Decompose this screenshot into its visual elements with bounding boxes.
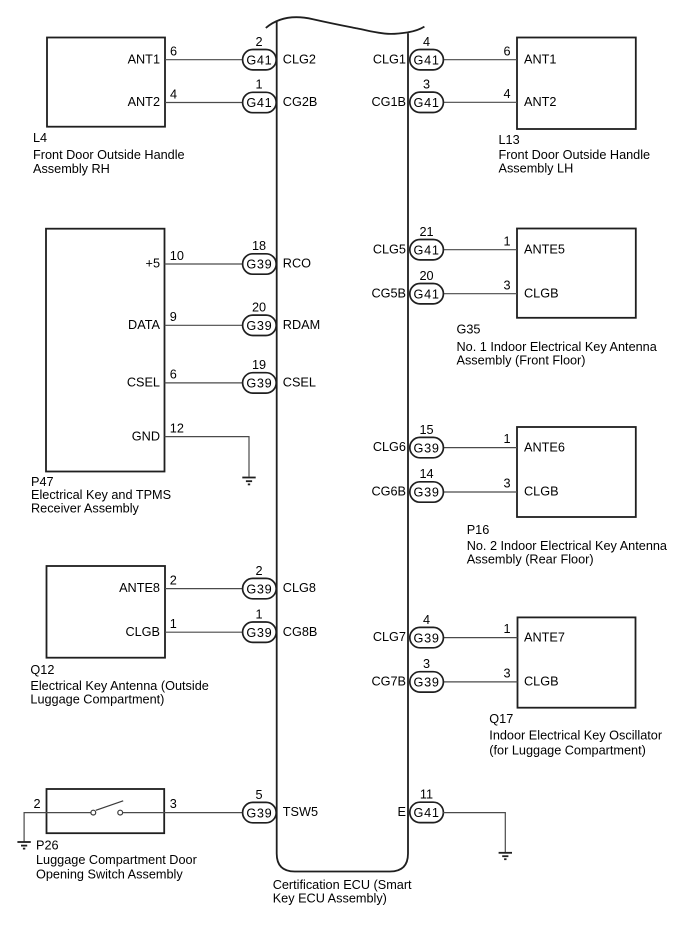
svg-text:GND: GND — [132, 429, 160, 443]
ground symbol (P26 pin 2) — [17, 842, 30, 849]
svg-text:Opening Switch Assembly: Opening Switch Assembly — [36, 868, 183, 882]
label L4 — [33, 131, 185, 176]
G35 pin CLGB (pin 3) — [503, 278, 558, 300]
svg-text:L4: L4 — [33, 131, 47, 145]
svg-text:P47: P47 — [31, 475, 54, 489]
connector oval G39 pin 15 CLG6 — [373, 423, 444, 458]
svg-text:ANTE5: ANTE5 — [524, 242, 565, 256]
wire P47.+5 to G39 RCO — [165, 263, 244, 265]
svg-text:G35: G35 — [457, 322, 481, 336]
svg-text:CSEL: CSEL — [127, 376, 160, 390]
P16 pin CLGB (pin 3) — [503, 477, 558, 499]
svg-text:CG6B: CG6B — [371, 485, 406, 499]
label Q12 — [30, 663, 208, 707]
wire P47.GND to ground — [165, 437, 250, 477]
svg-text:CG5B: CG5B — [371, 286, 406, 300]
wire ground to P26 left contact — [24, 813, 91, 842]
svg-text:TSW5: TSW5 — [283, 805, 318, 819]
svg-text:G41: G41 — [246, 53, 272, 67]
svg-text:15: 15 — [419, 423, 433, 437]
connector oval G39 pin 4 CLG7 — [373, 613, 444, 648]
svg-text:12: 12 — [170, 421, 184, 435]
L4 pin ANT1 (pin 6) — [128, 45, 178, 67]
label P26 — [36, 838, 198, 881]
L4 pin ANT2 (pin 4) — [128, 88, 178, 110]
svg-text:CLG5: CLG5 — [373, 242, 406, 256]
connector oval G41 pin 20 CG5B — [371, 269, 443, 304]
svg-text:4: 4 — [423, 613, 430, 627]
ECU body outline (Certification ECU / Smart Key ECU Assembly) — [266, 17, 425, 871]
svg-text:DATA: DATA — [128, 318, 160, 332]
wire P47.DATA to G39 RDAM — [165, 324, 244, 326]
svg-text:CLGB: CLGB — [524, 286, 559, 300]
svg-text:6: 6 — [503, 44, 510, 58]
label P16 — [467, 523, 668, 567]
svg-text:2: 2 — [255, 564, 262, 578]
svg-text:Q12: Q12 — [30, 663, 54, 677]
svg-text:Front Door Outside Handle: Front Door Outside Handle — [33, 148, 185, 162]
connector oval G39 pin 2 CLG8 — [243, 564, 316, 599]
svg-text:20: 20 — [252, 301, 266, 315]
svg-text:G39: G39 — [246, 319, 272, 333]
wire P47.CSEL to G39 CSEL — [165, 382, 244, 384]
svg-text:E: E — [398, 805, 406, 819]
svg-text:G39: G39 — [414, 486, 440, 500]
svg-text:18: 18 — [252, 239, 266, 253]
wire Q12.CLGB to G39 CG8B — [165, 631, 243, 633]
connector oval G39 pin 18 RCO — [243, 239, 312, 274]
wire G41 CLG5 to G35.ANTE5 — [443, 249, 517, 251]
svg-text:3: 3 — [503, 278, 510, 292]
box L13 Front Door Outside Handle Assembly LH — [517, 38, 636, 130]
wire G39 CG7B to Q17.CLGB — [443, 681, 518, 683]
svg-text:G39: G39 — [414, 441, 440, 455]
svg-text:P26: P26 — [36, 838, 59, 852]
svg-text:CLG8: CLG8 — [283, 581, 316, 595]
connector oval G41 pin 21 CLG5 — [373, 225, 444, 260]
svg-text:L13: L13 — [499, 133, 520, 147]
connector oval G41 pin 4 CLG1 — [373, 35, 444, 70]
svg-text:3: 3 — [423, 78, 430, 92]
svg-text:G39: G39 — [246, 258, 272, 272]
connector oval G39 pin 3 CG7B — [371, 657, 443, 692]
L13 pin ANT1 (pin 6) — [503, 44, 556, 66]
svg-text:G39: G39 — [246, 806, 272, 820]
wire G39 CLG7 to Q17.ANTE7 — [443, 637, 518, 639]
svg-text:Assembly (Rear Floor): Assembly (Rear Floor) — [467, 553, 594, 567]
svg-text:1: 1 — [255, 78, 262, 92]
svg-text:+5: +5 — [146, 257, 160, 271]
wire G41 CG1B to L13.ANT2 — [443, 101, 517, 103]
svg-text:Key ECU Assembly): Key ECU Assembly) — [273, 892, 387, 906]
svg-text:CLG6: CLG6 — [373, 440, 406, 454]
svg-text:4: 4 — [503, 87, 510, 101]
svg-text:Assembly (Front Floor): Assembly (Front Floor) — [457, 353, 586, 367]
svg-text:2: 2 — [33, 797, 40, 811]
svg-text:ANTE8: ANTE8 — [119, 581, 160, 595]
svg-text:1: 1 — [503, 234, 510, 248]
wire G39 CLG6 to P16.ANTE6 — [443, 447, 517, 449]
svg-text:CLG1: CLG1 — [373, 52, 406, 66]
svg-text:G41: G41 — [246, 96, 272, 110]
wire G41 CG5B to G35.CLGB — [443, 293, 517, 295]
box P26 Luggage Compartment Door Opening Switch Assembly — [47, 789, 165, 833]
svg-text:Certification ECU (Smart: Certification ECU (Smart — [273, 878, 412, 892]
svg-text:1: 1 — [170, 617, 177, 631]
G35 pin ANTE5 (pin 1) — [503, 234, 564, 256]
svg-text:1: 1 — [503, 622, 510, 636]
P47 pin +5 (pin 10) — [146, 249, 184, 271]
svg-text:CG8B: CG8B — [283, 625, 318, 639]
svg-text:P16: P16 — [467, 523, 490, 537]
svg-text:3: 3 — [423, 657, 430, 671]
svg-text:G41: G41 — [414, 53, 440, 67]
svg-text:ANT2: ANT2 — [128, 95, 160, 109]
ECU pin E to ground: connector oval G41 pin 11 E — [398, 788, 444, 823]
svg-text:(for Luggage Compartment): (for Luggage Compartment) — [489, 744, 646, 758]
svg-text:11: 11 — [420, 788, 433, 802]
L13 pin ANT2 (pin 4) — [503, 87, 556, 109]
svg-text:Q17: Q17 — [489, 712, 513, 726]
label G35 — [457, 322, 658, 367]
svg-text:G41: G41 — [414, 96, 440, 110]
svg-text:3: 3 — [503, 667, 510, 681]
svg-text:4: 4 — [170, 88, 177, 102]
Q17 pin CLGB (pin 3) — [503, 667, 558, 689]
svg-text:CG7B: CG7B — [371, 675, 406, 689]
svg-text:10: 10 — [170, 249, 184, 263]
label L13 — [499, 133, 651, 176]
svg-text:G39: G39 — [414, 676, 440, 690]
P47 pin GND (pin 12) — [132, 421, 184, 443]
ECU label Certification ECU (Smart Key ECU Assembly) — [273, 878, 412, 906]
wire G39 CG6B to P16.CLGB — [443, 491, 517, 493]
connector oval G41 pin 3 CG1B — [371, 78, 443, 113]
Q17 pin ANTE7 (pin 1) — [503, 622, 564, 644]
svg-text:No. 2 Indoor Electrical Key An: No. 2 Indoor Electrical Key Antenna — [467, 539, 668, 553]
switch blade (P26) — [96, 801, 123, 811]
svg-text:3: 3 — [503, 477, 510, 491]
svg-text:21: 21 — [419, 225, 433, 239]
svg-text:ANTE6: ANTE6 — [524, 440, 565, 454]
connector oval G41 pin 2 CLG2 — [243, 35, 316, 70]
svg-text:CLG2: CLG2 — [283, 52, 316, 66]
wire G41 CLG1 to L13.ANT1 — [443, 59, 517, 61]
svg-text:1: 1 — [255, 607, 262, 621]
svg-text:2: 2 — [255, 35, 262, 49]
svg-text:19: 19 — [252, 358, 266, 372]
svg-text:G41: G41 — [414, 806, 440, 820]
svg-text:2: 2 — [170, 573, 177, 587]
wire P26 right contact to G39 TSW5 — [122, 812, 242, 814]
Q12 pin CLGB (pin 1) — [125, 617, 176, 639]
box P16 No. 2 Indoor Electrical Key Antenna Assembly (Rear Floor) — [517, 427, 636, 517]
svg-text:Electrical Key Antenna (Outsid: Electrical Key Antenna (Outside — [30, 679, 208, 693]
svg-text:G39: G39 — [246, 626, 272, 640]
svg-text:20: 20 — [419, 269, 433, 283]
svg-text:Luggage Compartment): Luggage Compartment) — [30, 693, 164, 707]
connector oval G41 pin 1 CG2B — [243, 78, 318, 113]
svg-text:Assembly RH: Assembly RH — [33, 162, 110, 176]
Q12 pin ANTE8 (pin 2) — [119, 573, 177, 595]
svg-text:CLGB: CLGB — [524, 485, 559, 499]
svg-text:G41: G41 — [414, 287, 440, 301]
connector oval G39 pin 20 RDAM — [243, 301, 321, 336]
wire Q12.ANTE8 to G39 CLG8 — [165, 588, 243, 590]
switch symbol (P26) left contact — [91, 810, 96, 815]
svg-text:CLG7: CLG7 — [373, 630, 406, 644]
svg-text:6: 6 — [170, 45, 177, 59]
svg-text:G41: G41 — [414, 243, 440, 257]
svg-text:1: 1 — [503, 432, 510, 446]
svg-text:Indoor Electrical Key Oscillat: Indoor Electrical Key Oscillator — [489, 729, 663, 743]
P47 pin CSEL (pin 6) — [127, 368, 177, 390]
svg-text:5: 5 — [255, 788, 262, 802]
switch symbol (P26) right contact — [118, 810, 123, 815]
svg-text:14: 14 — [419, 467, 433, 481]
svg-text:Receiver Assembly: Receiver Assembly — [31, 502, 140, 516]
svg-text:3: 3 — [170, 797, 177, 811]
svg-text:Electrical Key and TPMS: Electrical Key and TPMS — [31, 488, 171, 502]
svg-text:G39: G39 — [414, 631, 440, 645]
svg-text:CG1B: CG1B — [371, 95, 406, 109]
svg-text:Luggage Compartment Door: Luggage Compartment Door — [36, 853, 198, 867]
label P47 — [31, 475, 171, 515]
wire L4.ANT1 to G41 CLG2 — [165, 59, 243, 61]
connector oval G39 pin 14 CG6B — [371, 467, 443, 502]
label Q17 — [489, 712, 663, 758]
svg-text:CLGB: CLGB — [125, 625, 160, 639]
ground symbol (P47 GND) — [242, 478, 255, 485]
svg-text:4: 4 — [423, 35, 430, 49]
svg-text:Front Door Outside Handle: Front Door Outside Handle — [499, 148, 651, 162]
svg-text:9: 9 — [170, 310, 177, 324]
svg-text:ANTE7: ANTE7 — [524, 630, 565, 644]
svg-text:ANT1: ANT1 — [524, 52, 556, 66]
svg-text:No. 1 Indoor Electrical Key An: No. 1 Indoor Electrical Key Antenna — [457, 340, 658, 354]
svg-text:CSEL: CSEL — [283, 376, 316, 390]
svg-text:CLGB: CLGB — [524, 675, 559, 689]
box L4 Front Door Outside Handle Assembly RH — [47, 38, 165, 127]
box Q17 Indoor Electrical Key Oscillator (for Luggage Compartment) — [518, 617, 636, 707]
svg-text:RDAM: RDAM — [283, 318, 320, 332]
wire L4.ANT2 to G41 CG2B — [165, 102, 243, 104]
svg-text:CG2B: CG2B — [283, 95, 318, 109]
svg-text:RCO: RCO — [283, 257, 311, 271]
ground symbol (ECU E) — [499, 853, 512, 859]
P47 pin DATA (pin 9) — [128, 310, 177, 332]
connector oval G39 pin 19 CSEL — [243, 358, 316, 393]
svg-text:G39: G39 — [246, 582, 272, 596]
svg-text:6: 6 — [170, 368, 177, 382]
connector oval G39 pin 5 TSW5 — [243, 788, 318, 823]
svg-text:ANT1: ANT1 — [128, 52, 160, 66]
box P47 Electrical Key and TPMS Receiver Assembly — [46, 229, 165, 472]
connector oval G39 pin 1 CG8B — [243, 607, 318, 642]
wire G41 E to ground — [443, 813, 505, 852]
box Q12 Electrical Key Antenna (Outside Luggage Compartment) — [47, 566, 166, 658]
box G35 No. 1 Indoor Electrical Key Antenna Assembly (Front Floor) — [517, 229, 636, 318]
P16 pin ANTE6 (pin 1) — [503, 432, 564, 454]
svg-text:ANT2: ANT2 — [524, 95, 556, 109]
svg-text:G39: G39 — [246, 377, 272, 391]
svg-text:Assembly LH: Assembly LH — [499, 162, 574, 176]
